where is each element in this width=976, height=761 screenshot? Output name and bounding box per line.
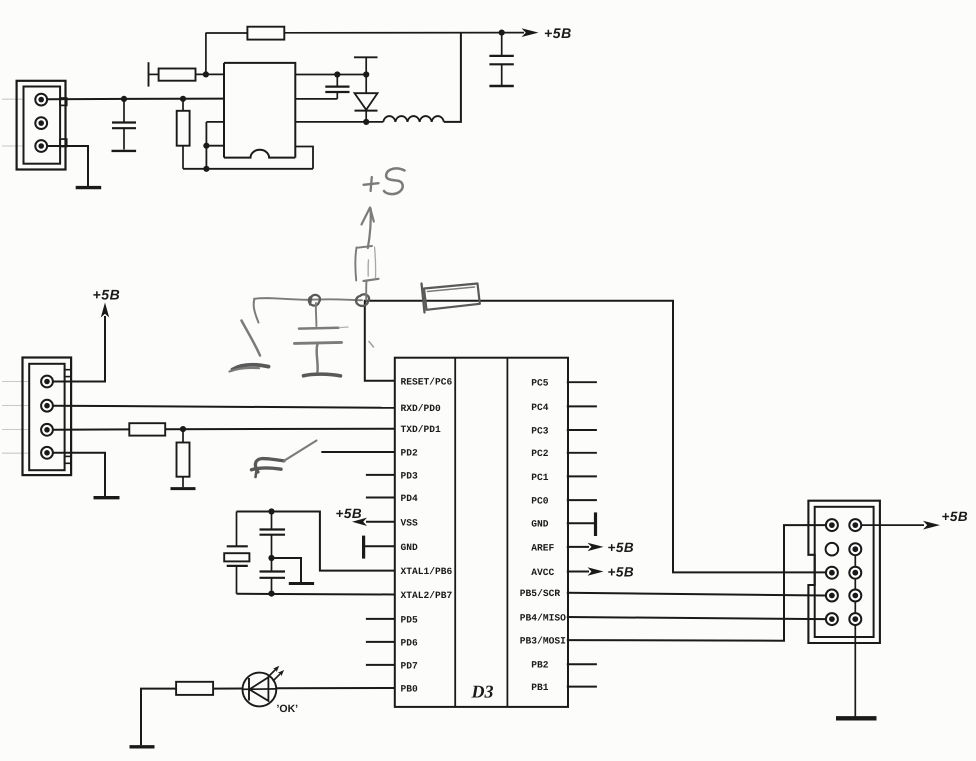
resistor R6 (LED series) xyxy=(176,682,213,695)
wire - cap middle to ground xyxy=(272,558,302,582)
ground - below X1 xyxy=(76,186,102,189)
ground - below X2 xyxy=(94,496,120,499)
connector X3 inner body xyxy=(815,507,874,637)
node - input cap junction xyxy=(121,96,127,102)
AREF +5B arrow xyxy=(567,546,589,548)
pin stub PC1 xyxy=(567,475,597,477)
wire - ISP pin2 to +5B xyxy=(861,524,924,526)
pin stub PD4 xyxy=(366,497,395,499)
pencil sketch - node scribble A xyxy=(309,295,320,306)
pencil sketch - node scribble B at corner xyxy=(356,294,369,306)
svg-text:GND: GND xyxy=(531,519,549,530)
wire - R6 to ground xyxy=(141,689,176,746)
inductor L1 xyxy=(383,116,444,122)
svg-text:+5B: +5B xyxy=(608,540,635,555)
connector X3 pin 9 (left) xyxy=(826,613,838,625)
wire - U1 pin to cap/diode junction xyxy=(295,74,366,76)
wire - resistor R6 to LED xyxy=(213,688,242,690)
connector X3 pin 1 (left) xyxy=(826,519,838,531)
connector X3 pin 6 (right) xyxy=(849,567,861,579)
wire - PB4/MISO to ISP pin9 xyxy=(567,617,826,619)
pencil sketch - wire to reset node xyxy=(254,298,362,300)
connector X3 pin 7 (left) xyxy=(826,590,838,602)
wire - U1 lower pin to C2 bottom xyxy=(295,98,337,100)
svg-text:RESET/PC6: RESET/PC6 xyxy=(401,376,453,387)
connector X3 (ISP 2x5) outer shell with key notch xyxy=(808,501,880,643)
pencil sketch - capacitor plate 1 xyxy=(299,326,339,329)
wire - X2 pin2 to RXD/PD0 xyxy=(53,406,395,408)
node - output cap junction xyxy=(499,29,505,35)
svg-text:PC4: PC4 xyxy=(531,402,549,413)
connector X2 pin 3 xyxy=(41,424,53,436)
svg-text:PD3: PD3 xyxy=(401,471,419,482)
connector X3 pin 10 (right) xyxy=(849,613,861,625)
regulator U1 body (DC-DC converter) xyxy=(224,63,295,158)
svg-text:+5B: +5B xyxy=(336,506,363,521)
svg-text:XTAL2/PB7: XTAL2/PB7 xyxy=(401,590,453,601)
svg-text:+5B: +5B xyxy=(544,25,572,41)
svg-text:AREF: AREF xyxy=(531,542,554,553)
wire - PB0 to LED xyxy=(276,687,395,689)
pin stub PD3 xyxy=(366,474,395,476)
node - feedback divider junction xyxy=(203,71,209,77)
pencil sketch - capacitor lower wire xyxy=(317,344,318,372)
wire - X2 pin1 to +5B xyxy=(53,316,105,382)
pencil sketch - switch lever xyxy=(242,321,261,356)
LED HL1 'OK' xyxy=(243,673,277,707)
+5B arrow (top) xyxy=(522,28,539,37)
svg-text:PD4: PD4 xyxy=(401,493,419,504)
svg-text:PB2: PB2 xyxy=(531,660,549,671)
connector X2 pin 4 xyxy=(41,447,53,459)
connector X2 pin 1 xyxy=(41,376,53,388)
crystal ZQ1 xyxy=(236,512,238,547)
LED HL1 light-ray arrows xyxy=(268,668,277,677)
pencil sketch - label +5 xyxy=(364,183,379,185)
svg-text:+5B: +5B xyxy=(942,509,969,524)
pin stub GND left with bar xyxy=(364,545,395,547)
+5B arrow (left, up) xyxy=(101,303,109,318)
pencil sketch - resistor box xyxy=(355,248,356,281)
svg-text:D3: D3 xyxy=(471,682,494,702)
node - diode junction xyxy=(363,71,369,77)
wire - X2 pin4 to ground xyxy=(53,453,105,496)
pencil sketch - switch drop wire xyxy=(254,299,259,323)
pin stub GND right with bar xyxy=(567,522,594,524)
svg-text:PB1: PB1 xyxy=(531,682,549,693)
svg-text:PB5/SCR: PB5/SCR xyxy=(520,588,561,599)
VSS +5B arrow (left) xyxy=(366,521,395,523)
wire - U1 output xyxy=(295,121,383,123)
wire - rail to +5B arrow xyxy=(284,32,524,34)
+5B arrow (ISP) xyxy=(923,521,940,530)
wire - inductor to +5B rail xyxy=(444,33,461,122)
resistor R1 (vertical, timing) xyxy=(182,99,184,111)
ground - LED resistor xyxy=(130,745,155,748)
svg-text:RXD/PD0: RXD/PD0 xyxy=(401,403,442,414)
node - R1 top junction xyxy=(180,96,186,102)
wire - X2 pin3 to resistor R4 xyxy=(53,428,129,430)
ground - crystal caps xyxy=(289,582,314,585)
svg-text:PD5: PD5 xyxy=(401,615,419,626)
capacitor C2 (timing) xyxy=(336,75,338,87)
node - R5 junction xyxy=(180,426,186,432)
wire - PB5/SCR to ISP pin7 xyxy=(567,593,826,596)
svg-text:+5B: +5B xyxy=(93,287,121,303)
svg-text:XTAL1/PB6: XTAL1/PB6 xyxy=(401,566,453,577)
IC D3 (microcontroller) body xyxy=(395,358,568,707)
node - diode to output xyxy=(363,119,369,125)
connector X1 pin 1 xyxy=(35,94,47,106)
capacitor C4 (load, upper) xyxy=(271,512,273,530)
wire - X1 pin3 to ground xyxy=(47,146,88,186)
AVCC +5B arrow xyxy=(567,571,589,573)
pin stub PD7 xyxy=(366,664,395,666)
connector X1 pin 3 xyxy=(35,140,47,152)
svg-text:PC2: PC2 xyxy=(531,448,549,459)
node - plate/rail junctions xyxy=(203,143,209,149)
wire - PB3/MOSI to ISP pin1 xyxy=(567,525,826,641)
svg-text:PB3/MOSI: PB3/MOSI xyxy=(520,636,566,647)
resistor R2 (feedback lower) with open terminal xyxy=(148,62,150,86)
wire - R4 to TXD/PD1 xyxy=(165,428,395,431)
svg-text:PD6: PD6 xyxy=(401,638,419,649)
svg-text:’OK’: ’OK’ xyxy=(277,703,299,715)
wire - ISP right column ground bus xyxy=(854,549,856,716)
connector X1 (3-pin power input) body xyxy=(17,81,66,170)
pin stub PC2 xyxy=(567,452,597,454)
connector X3 pin 5 (left) xyxy=(826,567,838,579)
svg-text:PC5: PC5 xyxy=(531,378,549,389)
pencil sketch - arrow to +5 xyxy=(368,209,371,249)
capacitor C5 (load, lower) xyxy=(271,558,273,571)
wire - crystal top rail to XTAL1/PB6 xyxy=(237,512,395,571)
wire - divider to +5B rail xyxy=(205,33,207,75)
node - cap chain middle xyxy=(268,555,274,561)
pin stub PC0 xyxy=(567,499,597,501)
node - cap chain bottom xyxy=(268,591,274,597)
pencil sketch - switch ground stroke xyxy=(233,365,269,370)
svg-text:PB0: PB0 xyxy=(401,684,419,695)
svg-text:PC1: PC1 xyxy=(531,472,549,483)
capacitor C1 (input) xyxy=(123,99,125,122)
pencil sketch - checkmark at PD2 xyxy=(255,459,284,472)
svg-text:PD7: PD7 xyxy=(401,661,419,672)
wire - crystal bottom rail to XTAL2/PB7 xyxy=(237,593,395,596)
svg-text:GND: GND xyxy=(401,542,419,553)
connector X3 pin 8 (right) xyxy=(849,590,861,602)
connector X1 pin 2 xyxy=(35,117,47,129)
pencil sketch - resistor box on reset wire xyxy=(424,284,480,310)
resistor R3 (feedback upper, on rail) xyxy=(247,27,284,40)
pencil sketch - capacitor plate 2 xyxy=(295,342,342,343)
connector X3 pin 3 (left) xyxy=(826,543,839,556)
node - cap chain top xyxy=(268,508,274,514)
svg-text:PC3: PC3 xyxy=(531,425,549,436)
pin stub PC3 xyxy=(567,429,597,431)
diode VD1 (catch diode) with open top terminal xyxy=(354,56,378,58)
wire - X1 pin1 to regulator input xyxy=(47,98,224,101)
connector X2 pin 2 xyxy=(41,400,53,412)
pencil sketch - capacitor wire xyxy=(315,303,318,326)
pin stub PD6 xyxy=(366,641,395,643)
resistor R4 (TXD series) xyxy=(129,423,165,435)
connector X2 (4-pin serial) body xyxy=(23,358,72,476)
pin stub PD2 xyxy=(321,451,395,453)
pin stub PB1 xyxy=(567,686,597,688)
svg-text:PB4/MISO: PB4/MISO xyxy=(520,612,566,623)
ground - ISP xyxy=(836,716,877,720)
svg-text:AVCC: AVCC xyxy=(531,567,554,578)
pin stub PB2 xyxy=(567,663,597,665)
wire - faint scan lines left of connector X2 xyxy=(2,381,28,383)
capacitor C3 (output) with open terminal xyxy=(501,33,503,56)
regulator U1 mounting plate outline xyxy=(206,121,224,123)
node - cap C2 top junction xyxy=(334,71,340,77)
pencil sketch - small tick xyxy=(369,342,374,348)
svg-text:+5B: +5B xyxy=(608,565,635,580)
connector X3 pin 2 (right) xyxy=(849,519,861,531)
wire - RESET/PC6 to ISP pin5 xyxy=(365,301,826,573)
wire - +5B top rail xyxy=(206,32,248,34)
pin stub PC5 xyxy=(567,381,597,383)
wire - bottom rail of regulator xyxy=(183,168,313,170)
pencil sketch - capacitor ground stroke xyxy=(304,374,341,376)
svg-text:PC0: PC0 xyxy=(531,496,549,507)
wire - faint scan lines left of connector X1 xyxy=(2,98,24,100)
svg-text:VSS: VSS xyxy=(401,517,419,528)
svg-text:PD2: PD2 xyxy=(401,448,419,459)
pin stub PD5 xyxy=(366,618,395,620)
ground - below R5 xyxy=(171,487,196,490)
resistor R5 (pull, vertical) xyxy=(182,429,184,442)
pin stub PC4 xyxy=(567,405,597,407)
svg-text:TXD/PD1: TXD/PD1 xyxy=(401,424,442,435)
connector X3 pin 4 (right) xyxy=(849,543,861,555)
